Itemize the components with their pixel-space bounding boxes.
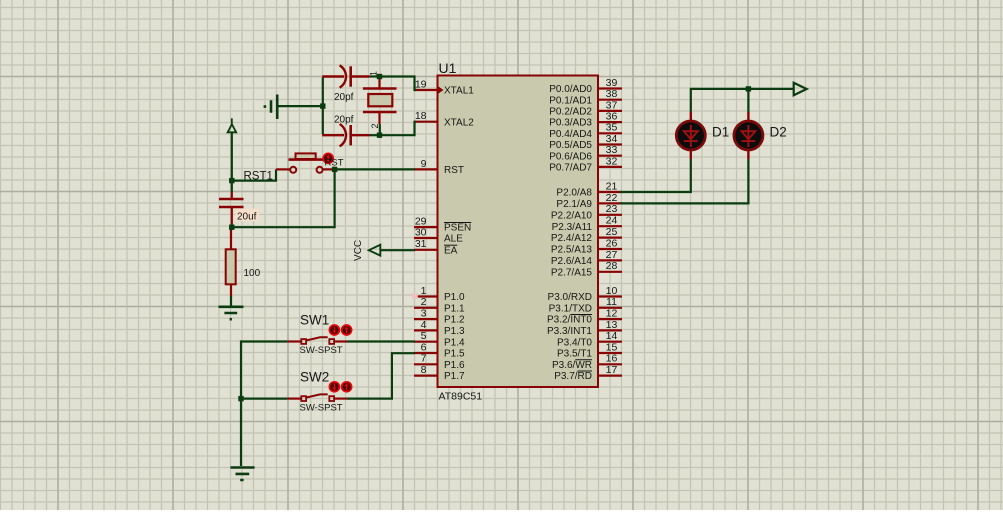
svg-text:D2: D2 (770, 125, 787, 140)
svg-text:P3.6/WR: P3.6/WR (552, 360, 592, 371)
svg-text:P2.5/A13: P2.5/A13 (551, 245, 593, 256)
svg-text:P2.6/A14: P2.6/A14 (551, 256, 593, 267)
svg-text:P0.4/AD4: P0.4/AD4 (549, 129, 592, 140)
svg-text:P1.0: P1.0 (444, 292, 465, 303)
svg-text:P2.3/A11: P2.3/A11 (552, 222, 593, 233)
svg-text:37: 37 (606, 99, 618, 111)
svg-text:EA: EA (444, 245, 458, 256)
svg-text:XTAL2: XTAL2 (444, 117, 474, 128)
svg-text:12: 12 (606, 308, 618, 320)
svg-text:ALE: ALE (444, 234, 463, 245)
svg-text:20pf: 20pf (334, 92, 354, 103)
svg-text:P0.5/AD5: P0.5/AD5 (549, 140, 592, 151)
svg-text:20pf: 20pf (334, 114, 354, 125)
svg-text:33: 33 (606, 144, 618, 156)
svg-text:9: 9 (421, 158, 427, 170)
svg-text:27: 27 (606, 249, 618, 261)
svg-text:P1.4: P1.4 (444, 337, 465, 348)
svg-text:38: 38 (606, 88, 618, 100)
svg-text:5: 5 (421, 330, 427, 342)
svg-text:22: 22 (606, 192, 618, 204)
svg-text:4: 4 (421, 319, 427, 331)
svg-text:2: 2 (421, 296, 427, 308)
svg-text:SW2: SW2 (300, 369, 329, 384)
svg-text:34: 34 (606, 133, 618, 145)
svg-text:100: 100 (244, 268, 261, 279)
svg-text:P1.5: P1.5 (444, 349, 465, 360)
svg-text:P3.3/INT1: P3.3/INT1 (547, 326, 592, 337)
svg-text:P2.2/A10: P2.2/A10 (551, 210, 593, 221)
svg-text:P1.2: P1.2 (444, 315, 465, 326)
svg-text:P3.1/TXD: P3.1/TXD (549, 303, 592, 314)
svg-text:VCC: VCC (353, 240, 364, 261)
svg-text:23: 23 (606, 203, 618, 215)
svg-text:P0.7/AD7: P0.7/AD7 (549, 163, 592, 174)
svg-text:P0.0/AD0: P0.0/AD0 (549, 84, 592, 95)
svg-text:8: 8 (421, 364, 427, 376)
svg-text:P3.7/RD: P3.7/RD (554, 371, 592, 382)
svg-text:P3.5/T1: P3.5/T1 (557, 349, 592, 360)
svg-text:P0.1/AD1: P0.1/AD1 (549, 95, 592, 106)
svg-text:18: 18 (415, 110, 427, 122)
svg-text:P0.6/AD6: P0.6/AD6 (549, 151, 592, 162)
svg-text:15: 15 (606, 341, 618, 353)
svg-text:16: 16 (606, 353, 618, 365)
svg-text:P2.1/A9: P2.1/A9 (556, 199, 592, 210)
svg-text:24: 24 (606, 215, 618, 227)
svg-text:36: 36 (606, 111, 618, 123)
svg-text:P2.4/A12: P2.4/A12 (551, 233, 593, 244)
svg-text:SW1: SW1 (300, 313, 329, 328)
svg-text:P0.2/AD2: P0.2/AD2 (549, 107, 592, 118)
svg-text:SW-SPST: SW-SPST (300, 402, 343, 413)
svg-text:6: 6 (421, 341, 427, 353)
svg-text:RST1: RST1 (244, 170, 273, 182)
svg-text:P3.0/RXD: P3.0/RXD (548, 292, 592, 303)
svg-text:P2.7/A15: P2.7/A15 (551, 267, 593, 278)
svg-text:17: 17 (606, 364, 618, 376)
svg-text:RST: RST (444, 165, 464, 176)
svg-text:39: 39 (606, 77, 618, 89)
svg-text:19: 19 (415, 78, 427, 90)
svg-text:13: 13 (606, 319, 618, 331)
svg-text:7: 7 (421, 353, 427, 365)
svg-text:P1.3: P1.3 (444, 326, 465, 337)
svg-text:10: 10 (606, 285, 618, 297)
svg-text:P1.6: P1.6 (444, 360, 465, 371)
svg-text:14: 14 (606, 330, 618, 342)
svg-text:AT89C51: AT89C51 (439, 391, 483, 403)
svg-text:SW-SPST: SW-SPST (300, 345, 343, 356)
svg-text:1: 1 (421, 285, 427, 297)
svg-text:3: 3 (421, 308, 427, 320)
svg-text:XTAL1: XTAL1 (444, 86, 474, 97)
svg-text:28: 28 (606, 260, 618, 272)
svg-text:21: 21 (606, 180, 618, 192)
svg-text:32: 32 (606, 155, 618, 167)
svg-text:P2.0/A8: P2.0/A8 (556, 188, 592, 199)
svg-text:20uf: 20uf (237, 211, 257, 222)
svg-text:35: 35 (606, 122, 618, 134)
svg-text:P0.3/AD3: P0.3/AD3 (549, 118, 592, 129)
svg-text:U1: U1 (439, 60, 457, 76)
svg-text:P1.7: P1.7 (444, 371, 465, 382)
svg-text:31: 31 (415, 238, 427, 250)
svg-text:P3.2/INT0: P3.2/INT0 (547, 315, 592, 326)
svg-text:P1.1: P1.1 (444, 303, 465, 314)
svg-text:2: 2 (370, 123, 380, 128)
svg-text:D1: D1 (712, 125, 729, 140)
svg-text:PSEN: PSEN (444, 223, 471, 234)
svg-text:26: 26 (606, 237, 618, 249)
svg-text:25: 25 (606, 226, 618, 238)
svg-text:11: 11 (606, 296, 617, 308)
svg-text:P3.4/T0: P3.4/T0 (557, 337, 592, 348)
